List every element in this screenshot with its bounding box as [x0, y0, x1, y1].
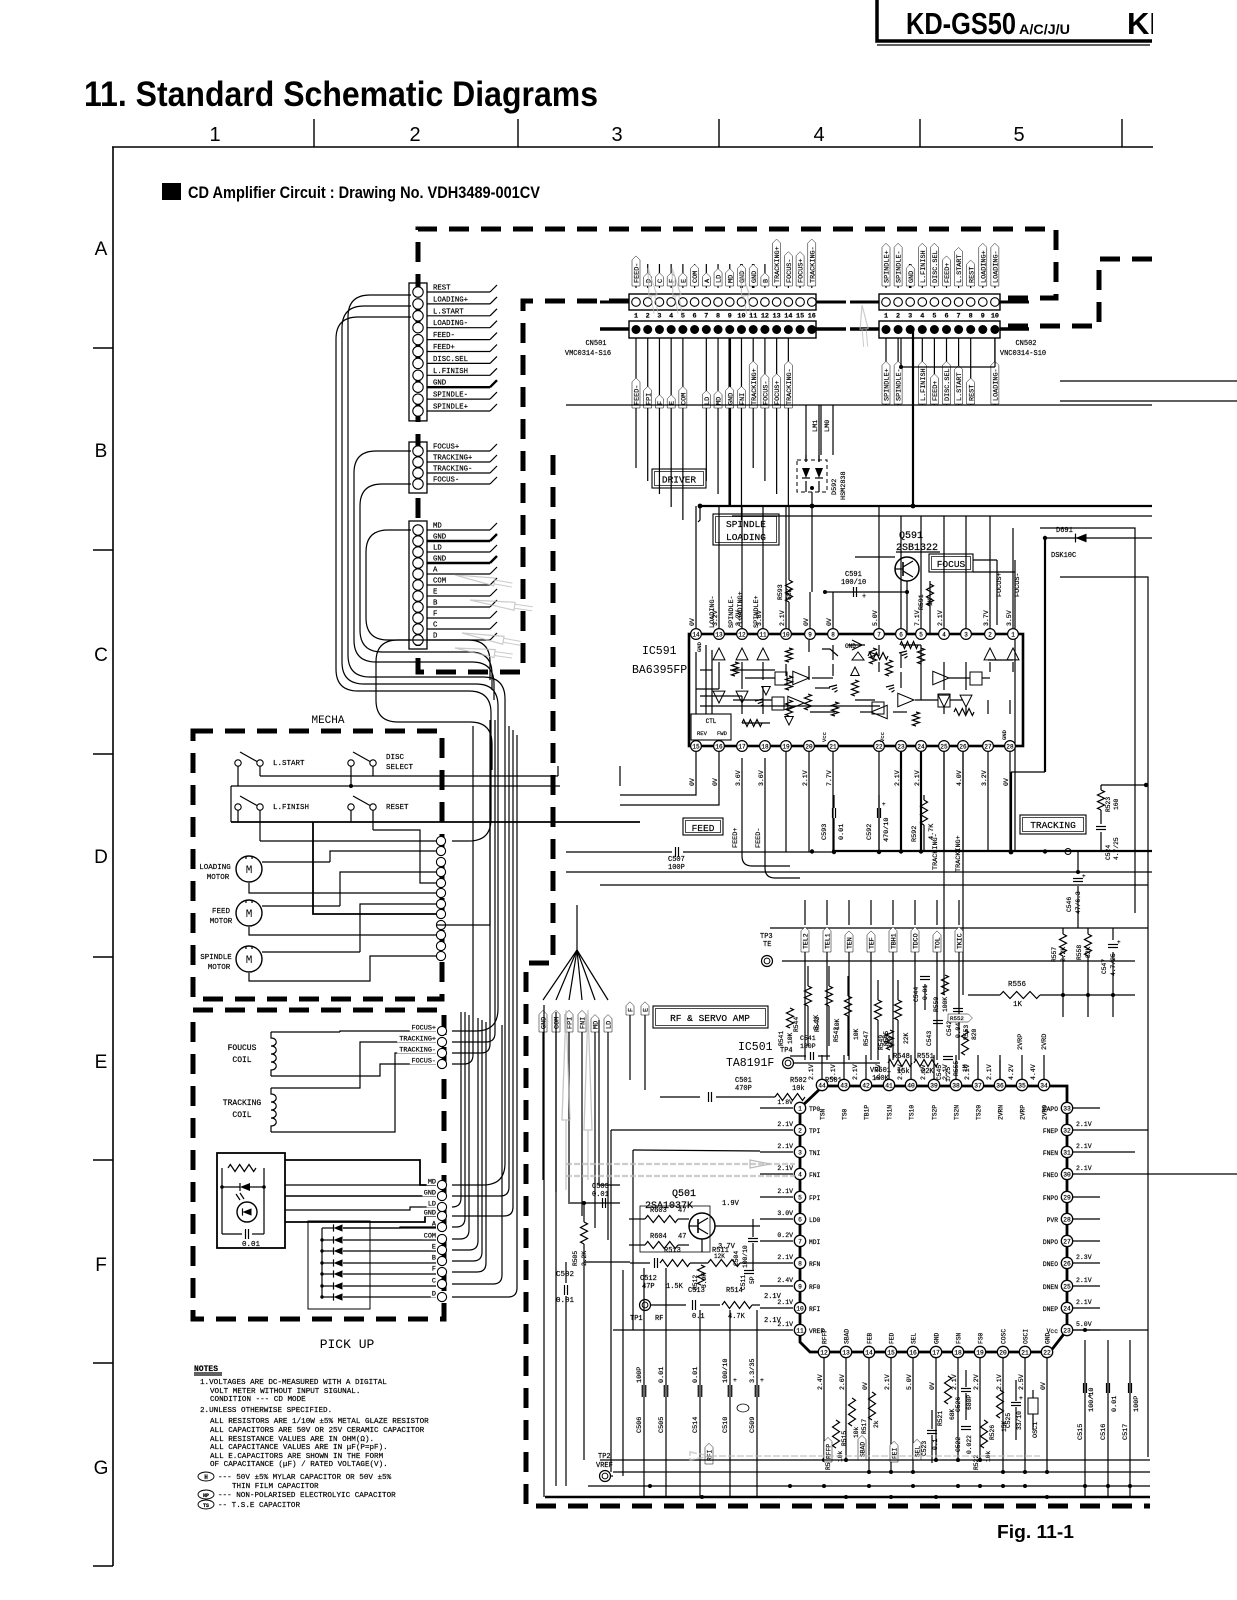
svg-text:0V: 0V — [689, 778, 696, 786]
svg-text:L.START: L.START — [956, 372, 964, 401]
svg-text:CONDITION --- CD MODE: CONDITION --- CD MODE — [210, 1396, 306, 1404]
svg-text:TRACKING-: TRACKING- — [809, 246, 817, 283]
CN501 upper wire label TRACKING+ — [776, 264, 778, 288]
svg-text:GND: GND — [696, 641, 703, 652]
CN501 feed stubs — [600, 301, 629, 304]
notes symbols — [198, 1472, 214, 1481]
svg-text:7: 7 — [798, 1239, 802, 1246]
CN501 upper wire label GND — [740, 264, 743, 288]
capacitor C516 0.01 — [1107, 1340, 1109, 1497]
svg-text:TDCO: TDCO — [912, 933, 919, 949]
connector pin COM — [413, 580, 423, 590]
CN501 lower wire label FOCUS+ — [776, 338, 778, 494]
svg-text:R543: R543 — [814, 1017, 821, 1032]
svg-text:C506: C506 — [636, 1417, 644, 1433]
svg-text:1K: 1K — [927, 598, 934, 606]
capacitor C510 100/10 — [729, 1310, 731, 1497]
IC591 top pin wires — [695, 506, 697, 628]
driver label — [652, 469, 706, 488]
CN502 lower wire label SPINDLE+ — [885, 338, 887, 405]
IC501 pin 24 DNEP — [1061, 1302, 1072, 1313]
IC591 pin 16 — [714, 741, 725, 752]
wire vcc rail — [1073, 1329, 1085, 1331]
IC501 pin 9 RF0 — [794, 1280, 805, 1291]
svg-text:Vcc: Vcc — [1047, 1328, 1059, 1335]
svg-text:LD: LD — [433, 545, 442, 553]
svg-text:SPINDLE+: SPINDLE+ — [884, 368, 892, 401]
svg-text:Vcc: Vcc — [821, 732, 828, 742]
IC591 pin 13 — [714, 629, 725, 640]
svg-text:0V: 0V — [826, 618, 833, 626]
solid frame right lower — [1060, 577, 1148, 1457]
svg-text:C516: C516 — [1100, 1424, 1108, 1440]
svg-text:1: 1 — [798, 1106, 802, 1113]
svg-text:E: E — [643, 1008, 651, 1012]
pickup right bundle — [452, 720, 495, 1042]
svg-text:FEED: FEED — [212, 908, 231, 916]
pickup terminal circles lower — [437, 1180, 446, 1189]
svg-text:LD: LD — [716, 275, 724, 283]
svg-text:TE: TE — [763, 941, 771, 949]
svg-text:1.5K: 1.5K — [666, 1283, 684, 1291]
svg-text:+: + — [1019, 1395, 1023, 1402]
IC501 pin 23 Vcc — [1061, 1324, 1072, 1335]
CN501 lower wire label COM — [682, 338, 684, 520]
svg-text:R548: R548 — [893, 1053, 910, 1061]
IC501 pin 42 TB1P — [860, 1079, 871, 1090]
svg-text:VMC0314-S16: VMC0314-S16 — [565, 350, 611, 358]
svg-text:REV: REV — [697, 730, 708, 737]
IC501 pin 16 SEL — [907, 1346, 918, 1357]
svg-text:C517: C517 — [1122, 1424, 1130, 1440]
capacitor C526 680P — [961, 1388, 971, 1390]
svg-text:1: 1 — [209, 124, 220, 146]
svg-text:4.0V: 4.0V — [956, 770, 963, 786]
svg-text:TS1N: TS1N — [887, 1105, 894, 1120]
array to terminals — [343, 1227, 436, 1228]
svg-text:LD: LD — [428, 1201, 436, 1209]
connector pin C — [413, 624, 423, 634]
svg-text:L.START: L.START — [273, 760, 305, 768]
svg-text:2VRP: 2VRP — [1020, 1105, 1027, 1120]
resistor cluster above IC501 — [805, 986, 812, 1006]
CN502 pin 9 — [979, 298, 988, 307]
CN501 upper wire label FOCUS- — [787, 264, 789, 288]
svg-text:R505: R505 — [572, 1251, 579, 1266]
svg-text:11: 11 — [796, 1328, 804, 1335]
svg-text:RFN: RFN — [809, 1261, 821, 1268]
capacitor C507 100P — [675, 847, 677, 857]
IC501 pin 14 FEB — [863, 1346, 874, 1357]
svg-text:L.START: L.START — [433, 308, 464, 316]
svg-text:R552: R552 — [950, 1015, 964, 1022]
svg-text:FPI: FPI — [567, 1017, 575, 1029]
svg-text:3.2V: 3.2V — [981, 770, 988, 786]
svg-text:NP: NP — [203, 1493, 209, 1499]
svg-text:FEED+: FEED+ — [944, 263, 952, 283]
IC501 pin 39 TS2P — [928, 1079, 939, 1090]
connector pin B — [413, 602, 423, 612]
svg-text:PVR: PVR — [1047, 1217, 1059, 1224]
svg-text:IC591: IC591 — [642, 645, 677, 658]
svg-text:47: 47 — [678, 1207, 686, 1215]
svg-text:MD: MD — [727, 275, 735, 283]
svg-text:0.1: 0.1 — [692, 1313, 705, 1321]
svg-text:C513: C513 — [688, 1287, 705, 1295]
IC591 CTL block — [691, 714, 731, 740]
svg-text:8: 8 — [798, 1261, 802, 1268]
photo diode array box — [308, 1221, 370, 1309]
IC501 pin 37 TS20 — [972, 1079, 983, 1090]
CN501 upper wire label C — [658, 264, 660, 288]
laser diode box — [217, 1153, 285, 1248]
CN501 pin 5 — [679, 298, 688, 307]
capacitor C545 1/25 — [943, 1056, 953, 1058]
IC501 pin 11 VREF — [794, 1324, 805, 1335]
svg-text:16: 16 — [715, 744, 723, 751]
svg-text:FEED-: FEED- — [634, 385, 642, 405]
svg-text:4: 4 — [669, 313, 673, 321]
svg-text:L.FINISH: L.FINISH — [920, 250, 928, 283]
IC591 internal amps — [793, 671, 809, 685]
svg-text:26: 26 — [1063, 1261, 1071, 1268]
svg-text:RF0: RF0 — [809, 1284, 821, 1291]
grid row tick — [93, 549, 113, 551]
servo test tags — [804, 900, 806, 925]
grid row tick — [93, 956, 113, 958]
svg-text:TP1: TP1 — [630, 1315, 643, 1323]
IC501 pin 41 TS1N — [883, 1079, 894, 1090]
CN501 pin 6 — [690, 298, 699, 307]
scan artifacts — [644, 267, 660, 314]
svg-text:1: 1 — [1011, 632, 1015, 639]
CN502 upper wire label LOADING+ — [982, 264, 984, 288]
svg-text:41: 41 — [885, 1083, 893, 1090]
svg-text:11. Standard Schematic Diagram: 11. Standard Schematic Diagrams — [84, 75, 598, 114]
svg-text:GND: GND — [424, 1190, 436, 1198]
pickup coil wiring — [340, 1031, 436, 1032]
svg-text:R593: R593 — [777, 584, 784, 600]
svg-text:SBAD: SBAD — [844, 1329, 851, 1344]
svg-text:RFFP: RFFP — [822, 1329, 829, 1344]
svg-text:COM: COM — [424, 1233, 436, 1241]
svg-text:C: C — [433, 622, 438, 630]
svg-text:11: 11 — [749, 313, 757, 321]
svg-text:ALL RESISTORS ARE 1/10W ±5% ME: ALL RESISTORS ARE 1/10W ±5% METAL GLAZE … — [210, 1418, 429, 1426]
svg-text:FPI: FPI — [809, 1195, 821, 1202]
CN501 pin 16 — [808, 298, 817, 307]
svg-text:COIL: COIL — [232, 1056, 251, 1065]
svg-text:2: 2 — [646, 313, 650, 321]
wire — [427, 291, 490, 293]
svg-text:3: 3 — [908, 313, 912, 321]
CN502 lower wire label L.FINISH — [921, 338, 923, 405]
wire — [427, 606, 490, 608]
wire fan-in FPI — [569, 950, 577, 1000]
IC591 pin 25 — [939, 741, 950, 752]
LED photo diode — [237, 1202, 257, 1222]
svg-text:TEF: TEF — [868, 937, 875, 949]
svg-text:R544: R544 — [793, 1017, 800, 1032]
IC501 pin 21 OSCI — [1019, 1346, 1030, 1357]
svg-text:1K: 1K — [1013, 1001, 1023, 1009]
wire to D592 — [805, 405, 807, 462]
svg-text:2.UNLESS OTHERWISE SPECIFIED.: 2.UNLESS OTHERWISE SPECIFIED. — [200, 1407, 332, 1415]
left vertical feeders — [698, 506, 700, 522]
svg-text:R513: R513 — [664, 1247, 681, 1255]
svg-text:100/10: 100/10 — [841, 579, 866, 587]
svg-text:2.1V: 2.1V — [1076, 1121, 1092, 1128]
svg-text:5.0V: 5.0V — [906, 1374, 913, 1390]
svg-text:FEED+: FEED+ — [433, 344, 455, 352]
svg-text:C525: C525 — [1005, 1413, 1012, 1428]
svg-text:F: F — [628, 1008, 636, 1012]
svg-text:TS10: TS10 — [909, 1105, 916, 1120]
svg-text:LOADING-: LOADING- — [992, 250, 1000, 283]
svg-text:TP4: TP4 — [780, 1047, 793, 1055]
wire — [427, 617, 490, 619]
rail y872 — [566, 871, 1152, 873]
svg-text:MD: MD — [428, 1179, 436, 1187]
capacitor C515 100/10 — [1084, 1340, 1086, 1497]
svg-text:L.FINISH: L.FINISH — [920, 368, 928, 401]
IC501 pin 10 RFI — [794, 1302, 805, 1313]
svg-text:E: E — [433, 589, 437, 597]
laser capacitor 0.01 — [245, 1229, 247, 1239]
svg-text:3.8V: 3.8V — [756, 610, 763, 626]
wire CN502 junction dots — [899, 365, 903, 369]
rail VREF — [613, 1329, 760, 1331]
grid tick 3-4 — [718, 119, 720, 147]
svg-text:3.6V: 3.6V — [735, 770, 742, 786]
svg-text:12: 12 — [738, 632, 746, 639]
IC501 pin 18 FSN — [952, 1346, 963, 1357]
svg-text:Q501: Q501 — [672, 1189, 696, 1200]
svg-text:3.6V: 3.6V — [758, 770, 765, 786]
svg-text:8: 8 — [831, 632, 835, 639]
IC591 pin 2 — [985, 629, 996, 640]
wire — [427, 529, 490, 531]
CN501 lower wire label TRACKING- — [787, 338, 789, 507]
svg-text:0V: 0V — [1003, 778, 1010, 786]
svg-text:7: 7 — [877, 632, 881, 639]
svg-text:27: 27 — [984, 744, 992, 751]
svg-text:14: 14 — [692, 632, 700, 639]
pickup wires to terminals — [285, 1160, 436, 1185]
IC591 internal transistor — [848, 644, 865, 646]
svg-text:C: C — [657, 279, 665, 283]
wire Q501 — [715, 1225, 760, 1227]
svg-text:29: 29 — [1063, 1195, 1071, 1202]
svg-text:2.1V: 2.1V — [1076, 1143, 1092, 1150]
CN501 upper wire label E — [682, 264, 684, 288]
connector pin MD — [413, 525, 423, 535]
svg-text:4: 4 — [813, 124, 824, 146]
grid tick 1-2 — [313, 119, 315, 147]
IC591 pin 8 — [828, 629, 839, 640]
CN502 lower wire label LOADING- — [994, 338, 996, 405]
svg-text:MD: MD — [716, 397, 724, 405]
svg-text:6: 6 — [798, 1217, 802, 1224]
svg-text:TEN: TEN — [846, 937, 853, 949]
svg-text:100/10: 100/10 — [722, 1359, 730, 1383]
CN501 pin 13 — [772, 298, 781, 307]
svg-text:FEI: FEI — [891, 1447, 898, 1459]
connector pin SPINDLE- — [413, 394, 423, 404]
switch RESET — [348, 804, 354, 810]
svg-text:RFI: RFI — [809, 1306, 821, 1313]
svg-text:0V: 0V — [929, 1382, 936, 1390]
wire rail below connectors — [566, 404, 1152, 406]
CN502 lower wire label SPINDLE- — [897, 338, 899, 405]
svg-text:16: 16 — [909, 1350, 917, 1357]
svg-text:L.FINISH: L.FINISH — [273, 804, 309, 812]
IC501 pin 34 2VRD — [1038, 1079, 1049, 1090]
IC501 pin 36 2VRN — [994, 1079, 1005, 1090]
IC591 bottom pin wires — [620, 752, 696, 795]
spindle loading label — [713, 514, 779, 545]
svg-text:C510: C510 — [722, 1417, 730, 1433]
svg-text:-- T.S.E CAPACITOR: -- T.S.E CAPACITOR — [218, 1502, 300, 1510]
svg-text:TRACKING: TRACKING — [223, 1099, 262, 1108]
solid frame right upper — [1040, 528, 1135, 913]
svg-text:R502: R502 — [790, 1077, 807, 1085]
wire — [427, 339, 490, 341]
svg-text:CN501: CN501 — [585, 340, 606, 348]
svg-text:1.9V: 1.9V — [722, 1200, 740, 1208]
svg-text:--- 50V ±5% MYLAR CAPACITOR OR: --- 50V ±5% MYLAR CAPACITOR OR 50V ±5% — [218, 1474, 392, 1482]
CN502 pin 1 — [882, 298, 891, 307]
CN501 pin 15 — [796, 298, 805, 307]
svg-text:32: 32 — [1063, 1128, 1071, 1135]
svg-text:GND: GND — [908, 271, 916, 283]
CN502 pin 6 — [942, 298, 951, 307]
svg-text:C: C — [432, 1278, 436, 1286]
svg-text:CTL: CTL — [706, 718, 717, 725]
svg-text:FEED-: FEED- — [433, 332, 455, 340]
svg-text:5P: 5P — [749, 1276, 756, 1284]
svg-text:4.4V: 4.4V — [1030, 1064, 1037, 1080]
svg-text:0V: 0V — [1040, 1382, 1047, 1390]
capacitor C509 3.3/35 — [756, 1310, 758, 1497]
connector pin LD — [413, 547, 423, 557]
svg-text:10: 10 — [782, 632, 790, 639]
svg-text:0.01: 0.01 — [242, 1241, 261, 1249]
svg-text:SPINDLE-: SPINDLE- — [896, 250, 904, 283]
connector pin FOCUS- — [413, 479, 423, 489]
IC501 pin 2 TPI — [794, 1124, 805, 1135]
svg-text:820: 820 — [971, 1028, 978, 1040]
svg-text:E: E — [680, 279, 688, 283]
svg-text:28: 28 — [1063, 1217, 1071, 1224]
svg-text:FEED+: FEED+ — [732, 828, 740, 848]
svg-text:2VRP: 2VRP — [1017, 1034, 1025, 1050]
CN502 upper wire label LOADING- — [994, 264, 996, 288]
CN501 lower wire label FEED- — [635, 338, 637, 468]
CN501 pin 3 — [655, 298, 664, 307]
svg-text:0V: 0V — [862, 1382, 869, 1390]
svg-text:FNEO: FNEO — [1043, 1172, 1058, 1179]
IC591 pin 28 — [1005, 741, 1016, 752]
CN501 upper wire label TRACKING- — [811, 264, 813, 288]
svg-text:44: 44 — [818, 1083, 826, 1090]
svg-text:30: 30 — [1063, 1172, 1071, 1179]
wire — [427, 410, 490, 412]
CN501 lower wire label TRACKING+ — [752, 338, 754, 468]
svg-text:SELECT: SELECT — [386, 764, 414, 772]
svg-text:FOCUS-: FOCUS- — [433, 477, 459, 485]
svg-text:2.2K: 2.2K — [1060, 947, 1067, 962]
switch DISC SELECT — [348, 760, 354, 766]
svg-text:TPI: TPI — [809, 1128, 821, 1135]
svg-text:FOCUS+: FOCUS+ — [798, 259, 806, 283]
svg-text:0V: 0V — [712, 778, 719, 786]
wire — [427, 315, 490, 317]
svg-text:10K: 10K — [853, 1028, 860, 1040]
wire — [427, 562, 490, 564]
svg-text:LOADING+: LOADING+ — [980, 250, 988, 283]
bottom signal tags — [824, 1437, 832, 1462]
svg-text:9: 9 — [808, 632, 812, 639]
svg-text:FOCUS: FOCUS — [937, 559, 966, 570]
resistor R522 10K — [981, 1420, 988, 1448]
svg-text:H: H — [204, 1474, 208, 1481]
header model box — [877, 0, 1152, 41]
svg-text:F: F — [95, 1255, 107, 1276]
CN502 upper wire label L.FINISH — [921, 264, 923, 288]
tracking label — [1020, 815, 1086, 834]
svg-text:SPINDLE+: SPINDLE+ — [884, 250, 892, 283]
svg-text:ALL RESISTANCE VALUES ARE IN O: ALL RESISTANCE VALUES ARE IN OHM(Ω). — [210, 1436, 374, 1444]
dashed box RF servo outer — [526, 455, 1150, 1506]
svg-text:REST: REST — [968, 385, 976, 401]
wire — [427, 398, 490, 400]
svg-text:ALL CAPACITANCE VALUES ARE IN: ALL CAPACITANCE VALUES ARE IN μF(P=pF). — [210, 1444, 388, 1452]
CN502 pin 10 — [991, 298, 1000, 307]
svg-text:REST: REST — [433, 285, 451, 293]
svg-text:2.1V: 2.1V — [764, 1293, 782, 1301]
svg-text:6: 6 — [944, 313, 948, 321]
array diodes — [334, 1224, 343, 1231]
svg-text:C502: C502 — [556, 1271, 574, 1279]
svg-text:D: D — [432, 1291, 436, 1299]
svg-text:4: 4 — [942, 632, 946, 639]
svg-text:R523: R523 — [1105, 797, 1112, 812]
svg-text:2.1V: 2.1V — [777, 1188, 793, 1195]
svg-text:TA8191F: TA8191F — [726, 1057, 774, 1070]
svg-text:23: 23 — [1063, 1328, 1071, 1335]
CN501 lower wire label E — [670, 338, 672, 507]
svg-text:2k: 2k — [873, 1420, 880, 1428]
svg-text:3.7V: 3.7V — [983, 610, 990, 626]
svg-text:DISC.SEL: DISC.SEL — [944, 368, 952, 401]
dashed box connector area — [418, 229, 1056, 672]
svg-text:R541: R541 — [778, 1031, 785, 1046]
svg-text:2.4V: 2.4V — [817, 1374, 824, 1390]
capacitor C542 0.047 — [953, 1008, 963, 1010]
IC591 pin 12 — [737, 629, 748, 640]
svg-text:2.1V: 2.1V — [779, 610, 786, 626]
wire upper right exit 1 — [1060, 380, 1237, 382]
svg-text:17: 17 — [738, 744, 746, 751]
svg-text:12: 12 — [820, 1350, 828, 1357]
svg-text:R557: R557 — [1051, 947, 1058, 962]
svg-text:R549: R549 — [878, 1035, 885, 1050]
svg-text:GND: GND — [433, 380, 447, 388]
svg-text:+: + — [1088, 1393, 1092, 1400]
connector pin GND — [413, 382, 423, 392]
connector pin LOADING- — [413, 323, 423, 333]
